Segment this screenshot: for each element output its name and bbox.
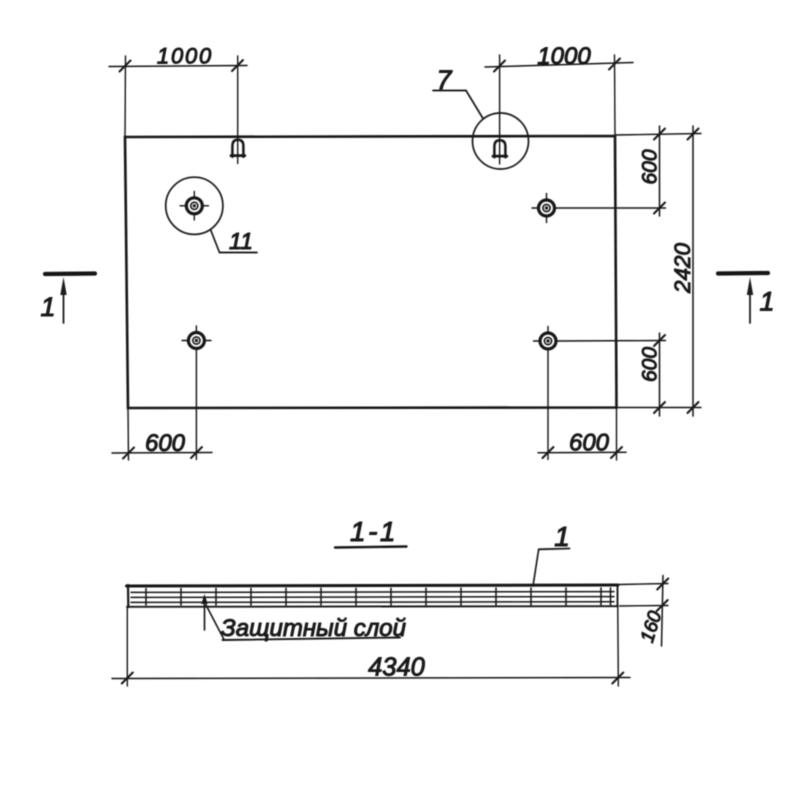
mount point P1 cross ticks — [180, 192, 209, 221]
detail circle 11 — [166, 177, 223, 234]
leader vertical — [204, 598, 206, 630]
extension line slab right down — [617, 607, 620, 686]
svg-text:600: 600 — [145, 430, 186, 457]
tick — [612, 673, 623, 684]
callout 11 shelf — [220, 252, 258, 254]
extension line right edge down — [616, 408, 618, 460]
mount point P3 inner circle — [193, 337, 200, 344]
section mark left bar — [45, 271, 95, 276]
tick — [191, 447, 202, 458]
section slab left edge — [127, 585, 130, 607]
dimension line 4340 — [112, 678, 630, 679]
mount point P2 inner circle — [543, 204, 550, 211]
tick — [494, 61, 505, 72]
svg-text:1: 1 — [40, 292, 55, 322]
mount point P2 center dot — [545, 206, 548, 209]
mount point P3 center dot — [195, 339, 198, 342]
extension line from P4 right — [557, 340, 666, 343]
svg-text:2420: 2420 — [670, 242, 695, 294]
detail circle 7 — [473, 113, 529, 169]
dimension line 600 (right top) — [659, 126, 661, 216]
svg-text:1-1: 1-1 — [350, 516, 398, 547]
callout 7 leader — [466, 91, 483, 119]
mount point P2 cross ticks — [532, 194, 547, 223]
mount point P1 inner circle — [191, 202, 198, 209]
anchor loop B bottom bar — [493, 155, 507, 158]
svg-text:1: 1 — [759, 287, 774, 317]
anchor loop B (right lifting loop) — [494, 140, 505, 157]
mount point P2 outer ring — [539, 200, 555, 216]
extension line through anchor B — [499, 55, 501, 164]
tick — [688, 129, 699, 140]
extension line bottom edge right — [617, 407, 701, 409]
dimension line 600 (bottom left) — [112, 452, 212, 455]
tick — [543, 447, 554, 458]
svg-text:600: 600 — [639, 347, 662, 382]
section mark right arrow — [749, 284, 751, 323]
mount point P4 outer ring — [540, 333, 556, 349]
mount point P3 cross ticks — [182, 326, 211, 341]
tick — [657, 600, 668, 611]
anchor loop A bottom bar — [231, 154, 245, 157]
callout 7 shelf — [433, 90, 466, 92]
extension line from P2 right — [555, 207, 666, 209]
dimension line 600 (right bottom) — [659, 333, 661, 416]
dimension line 2420 (right) — [692, 126, 694, 416]
svg-text:1000: 1000 — [157, 44, 213, 69]
tick — [232, 60, 243, 71]
dimension line 160 — [662, 576, 664, 647]
tick — [654, 129, 665, 140]
extension line from P3 down — [195, 349, 197, 460]
section slab bottom edge — [127, 605, 618, 608]
callout 11 leader — [211, 230, 220, 253]
dimension line 1000 (top left) — [109, 66, 247, 67]
section title underline — [335, 547, 407, 548]
leader arrow (protective layer) — [201, 594, 207, 604]
mount point P4 center dot — [546, 339, 549, 342]
svg-text:1: 1 — [554, 521, 570, 552]
section slab top edge — [127, 585, 619, 586]
slab cell dividers — [146, 588, 611, 605]
extension line from P4 down — [547, 350, 549, 460]
svg-text:1000: 1000 — [537, 43, 591, 70]
tick — [123, 448, 134, 459]
svg-text:600: 600 — [569, 430, 610, 457]
extension line top edge right — [616, 134, 701, 136]
mount point P4 cross ticks — [534, 327, 549, 342]
tick — [657, 579, 668, 590]
tick — [654, 203, 665, 214]
slab rebar line 3 — [131, 601, 614, 604]
extension line slab top right — [620, 584, 669, 585]
extension line right edge up — [614, 55, 617, 136]
tick — [609, 59, 620, 70]
mount point P4 inner circle — [544, 337, 551, 344]
callout 1 leader (section) — [533, 549, 539, 586]
extension line through anchor A — [237, 56, 239, 164]
slab rebar line 2 — [131, 596, 614, 599]
dimension line 600 (bottom right) — [538, 451, 626, 454]
svg-text:4340: 4340 — [368, 654, 425, 682]
tick — [688, 402, 699, 413]
tick — [611, 447, 622, 458]
svg-text:7: 7 — [436, 65, 452, 95]
section mark left arrow — [63, 284, 65, 323]
extension line slab bottom right — [620, 605, 669, 608]
plate outline (plan view) — [125, 136, 617, 408]
tick — [654, 402, 665, 413]
section mark right bar — [718, 271, 768, 276]
extension line left edge down — [127, 408, 130, 460]
mount point P1 outer ring — [186, 198, 202, 214]
extension line slab left down — [126, 607, 128, 686]
tick — [654, 335, 665, 346]
callout 1 shelf — [539, 548, 570, 551]
svg-text:600: 600 — [639, 149, 662, 184]
dimension line 1000 (top right) — [485, 63, 633, 68]
slab rebar line 1 — [131, 591, 614, 594]
anchor loop A (left lifting loop) — [232, 140, 243, 157]
mount point P1 center dot — [193, 204, 196, 207]
extension line left edge up — [124, 56, 127, 137]
text underline — [223, 638, 401, 641]
mount point P3 outer ring — [188, 333, 204, 349]
svg-text:11: 11 — [229, 228, 253, 254]
tick — [120, 61, 131, 72]
tick — [122, 673, 133, 684]
leader diagonal — [206, 605, 224, 640]
section slab right edge — [617, 585, 619, 607]
